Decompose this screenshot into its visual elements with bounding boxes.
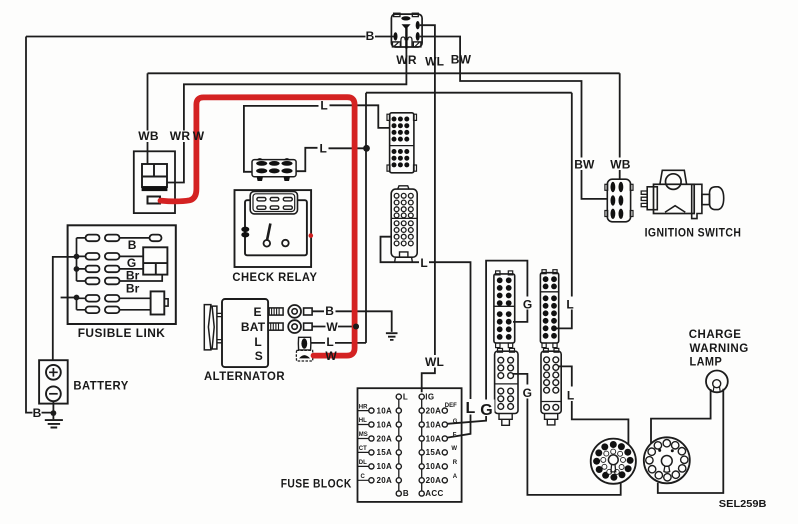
svg-text:10A: 10A <box>426 420 442 429</box>
svg-text:L: L <box>320 141 328 155</box>
svg-text:IGNITION SWITCH: IGNITION SWITCH <box>645 226 742 240</box>
svg-text:10A: 10A <box>377 406 393 415</box>
svg-text:F: F <box>453 433 457 439</box>
svg-text:R: R <box>453 460 458 466</box>
svg-text:WL: WL <box>425 355 444 369</box>
svg-text:W: W <box>325 349 337 363</box>
svg-text:B: B <box>128 238 137 252</box>
svg-text:L: L <box>403 392 408 401</box>
svg-text:15A: 15A <box>377 448 393 457</box>
svg-text:DEF: DEF <box>445 403 457 409</box>
svg-text:CT: CT <box>359 446 367 452</box>
svg-text:20A: 20A <box>426 476 442 485</box>
svg-text:G: G <box>453 419 458 425</box>
svg-text:W: W <box>326 320 338 334</box>
svg-text:BW: BW <box>574 158 595 172</box>
svg-text:SEL259B: SEL259B <box>719 498 767 510</box>
svg-text:BATTERY: BATTERY <box>73 378 128 392</box>
svg-text:HR: HR <box>359 404 368 410</box>
svg-text:WB: WB <box>138 129 159 143</box>
svg-text:20A: 20A <box>426 406 442 415</box>
svg-text:BW: BW <box>451 52 472 66</box>
svg-text:10A: 10A <box>377 462 393 471</box>
svg-text:10A: 10A <box>426 462 442 471</box>
svg-text:DL: DL <box>359 460 367 466</box>
svg-text:G: G <box>480 402 492 419</box>
svg-text:L: L <box>320 99 328 113</box>
svg-text:A: A <box>453 474 458 480</box>
svg-text:L: L <box>420 256 428 270</box>
svg-text:B: B <box>403 489 409 498</box>
svg-text:L: L <box>566 297 574 311</box>
svg-text:WL: WL <box>425 54 444 68</box>
svg-text:ACC: ACC <box>425 489 443 498</box>
svg-text:Br: Br <box>126 281 140 295</box>
svg-text:E: E <box>253 305 261 319</box>
svg-text:WR: WR <box>170 129 191 143</box>
svg-text:W: W <box>193 129 205 143</box>
svg-text:20A: 20A <box>377 434 393 443</box>
svg-text:WB: WB <box>610 158 631 172</box>
svg-text:LAMP: LAMP <box>690 354 723 368</box>
svg-text:ALTERNATOR: ALTERNATOR <box>204 369 285 383</box>
svg-text:L: L <box>326 335 334 349</box>
svg-text:G: G <box>523 386 533 400</box>
svg-text:20A: 20A <box>377 476 393 485</box>
svg-text:B: B <box>33 406 42 420</box>
svg-text:WR: WR <box>396 53 417 67</box>
svg-text:IG: IG <box>425 392 434 401</box>
svg-text:MS: MS <box>359 432 368 438</box>
svg-text:C: C <box>361 474 366 480</box>
svg-text:FUSIBLE LINK: FUSIBLE LINK <box>78 326 166 340</box>
svg-text:G: G <box>523 297 533 311</box>
svg-text:CHECK RELAY: CHECK RELAY <box>232 270 317 284</box>
svg-text:BAT: BAT <box>241 320 266 334</box>
svg-text:L: L <box>466 400 476 417</box>
svg-text:B: B <box>325 304 334 318</box>
svg-text:10A: 10A <box>377 420 393 429</box>
svg-text:CHARGE: CHARGE <box>689 327 742 341</box>
svg-text:10A: 10A <box>426 434 442 443</box>
svg-text:WARNING: WARNING <box>690 341 749 355</box>
svg-text:W: W <box>451 446 457 452</box>
svg-text:HL: HL <box>359 418 367 424</box>
svg-text:FUSE BLOCK: FUSE BLOCK <box>281 477 352 491</box>
svg-text:B: B <box>366 29 375 43</box>
svg-text:S: S <box>255 349 263 363</box>
svg-text:15A: 15A <box>426 448 442 457</box>
svg-text:L: L <box>567 388 575 402</box>
svg-text:L: L <box>254 335 262 349</box>
